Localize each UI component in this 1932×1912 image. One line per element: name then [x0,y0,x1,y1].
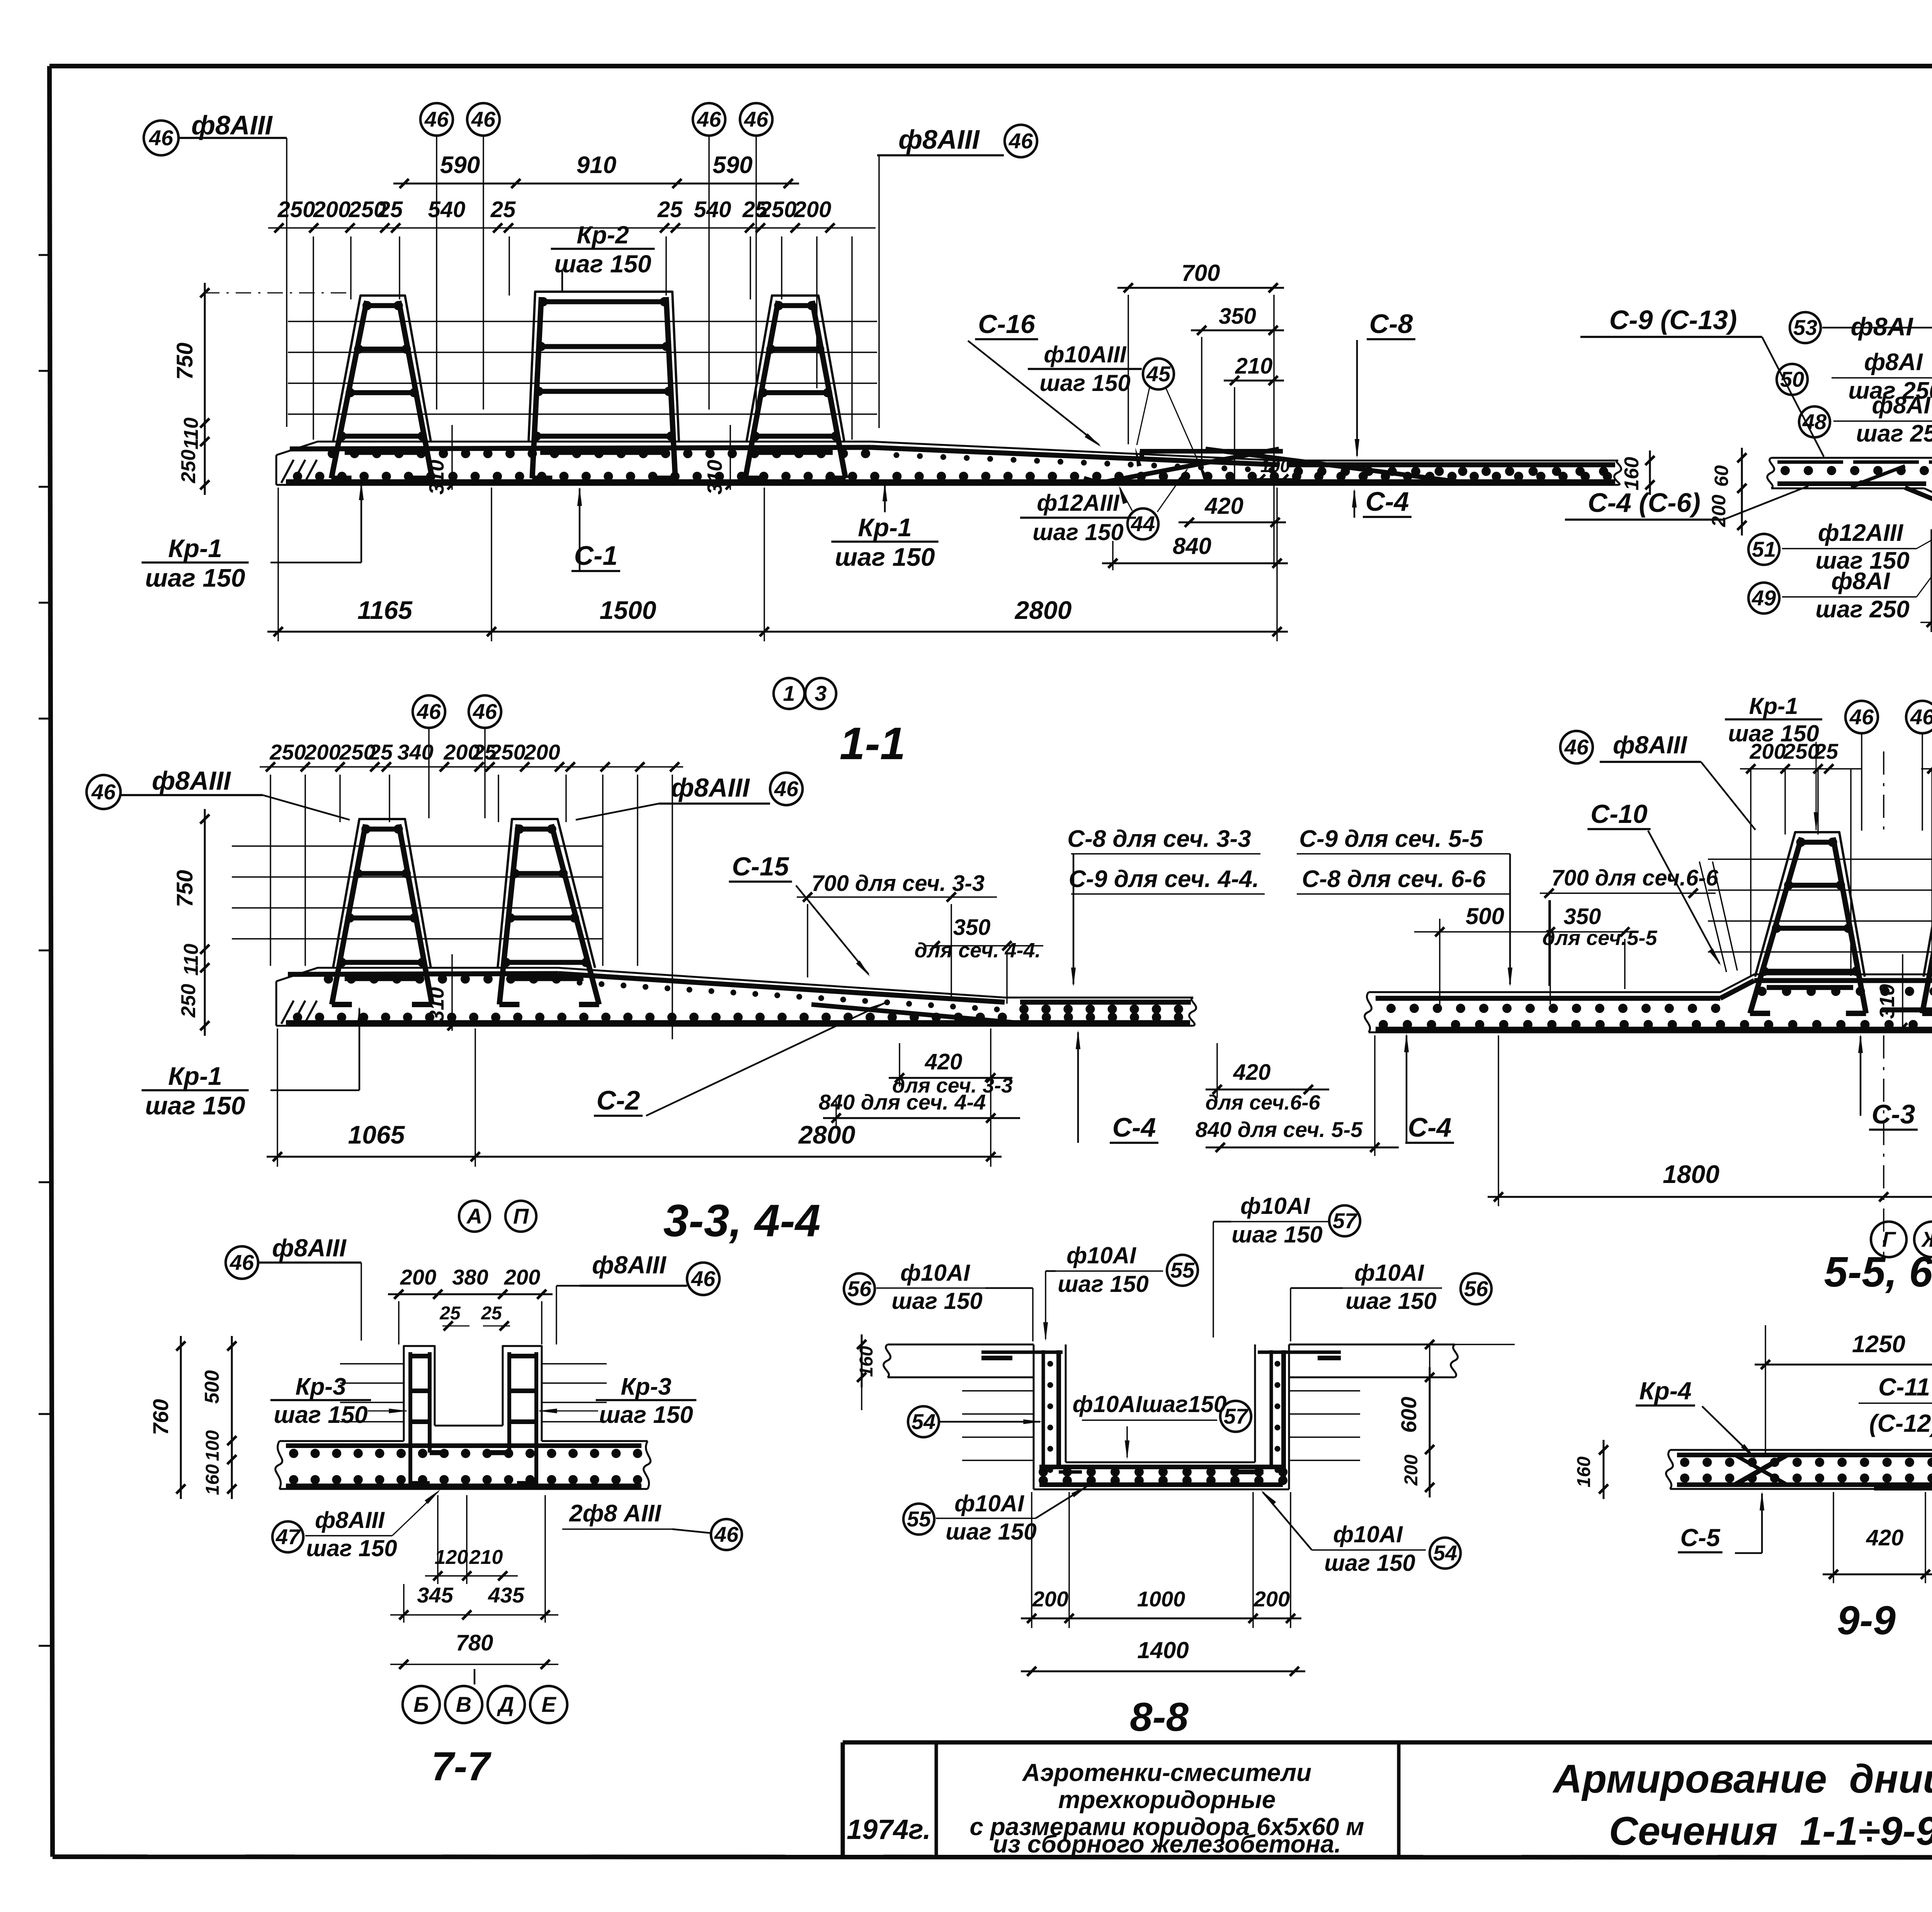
dimension 350 [1191,304,1284,461]
svg-text:250: 250 [489,740,525,764]
svg-text:2ф8 АIII: 2ф8 АIII [569,1500,662,1527]
dimension 700 для сеч 6-6 [1540,865,1719,986]
310 depth label 3-3 [425,954,457,1031]
labels Кр-1 шаг 150 top 5-5 [1725,693,1932,831]
svg-text:Кр-2: Кр-2 [577,221,629,249]
svg-text:2800: 2800 [1014,596,1072,624]
label Кр-2 шаг 150 [551,221,655,293]
label С-16 with leader [968,309,1101,447]
section 1-1 slab right rebar С-8 [1287,462,1615,467]
dimension 780 7-7 [390,1630,558,1684]
dimension 160 left 9-9 [1574,1440,1608,1499]
section 3-3 base slab outline [276,968,1196,1026]
svg-text:200: 200 [313,197,351,222]
svg-text:из сборного железобетона.: из сборного железобетона. [993,1830,1341,1858]
section 7-7 slab rebar [286,1446,642,1486]
section 3-3 slab bottom rebar С-2 [286,1020,1190,1025]
svg-text:200: 200 [524,740,560,764]
dimension 345 435 7-7 [390,1495,558,1623]
svg-text:ф10АIшаг150: ф10АIшаг150 [1073,1391,1227,1417]
label ф10АI шаг 150 55 top 8-8 [1043,1242,1198,1341]
bottom dimension row 1800 1800 [1488,751,1932,1259]
left vertical dims 160 200 [1708,448,1747,535]
section 9-9 slab outline [1666,1450,1932,1489]
label С-1 [571,487,620,571]
svg-text:С-8 для сеч. 6-6: С-8 для сеч. 6-6 [1302,866,1486,892]
section 1-1 slab top rebar С-16 [290,447,871,449]
svg-text:шаг 150: шаг 150 [1728,721,1819,746]
section 3-3 diagonal anchor bars [386,1004,1020,1023]
bottom dimension row 1165 1500 2800 [267,488,1288,641]
svg-text:1250: 1250 [1852,1331,1905,1358]
svg-text:Армирование днища.: Армирование днища. [1552,1757,1932,1802]
svg-text:ф8АIII: ф8АIII [152,766,231,795]
thin vertical extension lines [313,236,852,440]
svg-text:46: 46 [230,1250,254,1275]
dashed base level line [204,292,350,294]
svg-text:В: В [456,1692,471,1717]
svg-text:Сечения 1-1÷9-9: Сечения 1-1÷9-9 [1609,1809,1932,1854]
svg-text:ф8АI: ф8АI [1850,312,1913,341]
svg-text:ф8АI: ф8АI [1864,349,1923,376]
label С-4 with leader [1352,486,1412,518]
svg-text:С-4 (С-6): С-4 (С-6) [1588,488,1701,518]
section 8-8 wall rebar [981,1350,1341,1484]
svg-text:2800: 2800 [798,1120,855,1149]
dimension 160 right end [1621,450,1655,495]
svg-text:200: 200 [400,1265,436,1289]
labels Кр-3 шаг 150 [270,1373,696,1428]
svg-text:С-15: С-15 [732,852,789,881]
svg-text:57: 57 [1224,1404,1249,1428]
svg-text:С-3: С-3 [1872,1099,1915,1129]
svg-text:340: 340 [397,740,433,764]
svg-text:С-8 для сеч. 3-3: С-8 для сеч. 3-3 [1067,826,1251,852]
left vertical dims 750 110 250 3-3 [172,809,209,1036]
svg-text:250: 250 [277,197,315,222]
leader circles 46 top 3-3 [413,695,501,818]
svg-text:С-5: С-5 [1680,1524,1721,1552]
label С-3 [1858,1034,1918,1130]
leader circle 46 with ф8АIII top right [877,124,1037,428]
dimension 500 [1414,900,1638,1004]
svg-text:200: 200 [1401,1455,1422,1486]
svg-text:910: 910 [577,152,616,178]
svg-text:ф8АIII: ф8АIII [898,124,980,155]
label Кр-4 left 9-9 [1636,1377,1756,1459]
svg-text:55: 55 [1170,1258,1195,1282]
svg-text:ф8АI: ф8АI [1831,568,1890,595]
svg-text:7-7: 7-7 [431,1744,492,1789]
dimension 700 [1117,260,1284,567]
section 5-5 top rebar С-10 [1376,996,1720,1001]
svg-text:1: 1 [783,681,795,705]
svg-text:200: 200 [794,197,832,222]
title block project name [969,1759,1364,1858]
svg-text:250: 250 [759,197,797,222]
section 5-5 rebar dots [1379,987,1932,1029]
thin vertical extension lines 5-5 [1751,769,1932,976]
svg-text:250: 250 [269,740,306,764]
svg-text:Е: Е [541,1692,556,1717]
svg-text:ф10АI: ф10АI [1333,1521,1403,1547]
svg-text:250: 250 [177,450,200,484]
svg-text:160: 160 [1574,1457,1594,1487]
axis circles Г Ж Л [1871,1222,1932,1257]
svg-text:Ж: Ж [1921,1227,1932,1251]
dimension 700 для сеч 3-3 [797,871,997,999]
svg-text:шаг 150: шаг 150 [1231,1222,1323,1247]
svg-text:шаг 150: шаг 150 [946,1519,1037,1545]
axis circles А П [459,1201,536,1232]
dimension row 250 200 250 25 340 200 25 250 200 [260,740,683,772]
svg-text:160: 160 [1621,457,1643,491]
section 3-3 rebar dots [293,974,1183,1022]
label С-11 (С-12) 9-9 [1859,1373,1932,1447]
svg-text:46: 46 [471,107,496,131]
svg-text:160: 160 [202,1464,223,1495]
svg-text:200: 200 [1708,495,1730,527]
thin vertical extension lines 3-3 [270,775,672,1039]
svg-text:350: 350 [1219,304,1256,329]
svg-text:210: 210 [1235,354,1273,379]
svg-text:435: 435 [488,1583,524,1607]
svg-text:750: 750 [172,343,197,380]
dimension row 200 380 200 7-7 [388,1265,553,1344]
svg-text:5-5, 6-6: 5-5, 6-6 [1824,1248,1932,1296]
svg-text:ф8АIII: ф8АIII [1613,731,1687,759]
wall stub center Кр-2 with ladder cage [529,292,679,442]
svg-text:750: 750 [172,870,197,908]
section 1-1 slab rebar dots slope row [894,452,900,458]
dimension 350 для сеч 4-4 [914,915,1043,1004]
section 3-3 left end hatch [281,1001,294,1024]
svg-text:ф10АI: ф10АI [1354,1260,1424,1286]
svg-text:590: 590 [713,152,752,178]
svg-text:С-4: С-4 [1366,486,1409,517]
svg-text:350: 350 [1564,904,1601,929]
label 49 ф8АI шаг 250 left [1748,527,1932,623]
thin wall formwork horizontals 3-3 [232,846,603,939]
label ф10АI шаг 150 56 top-right 8-8 [1291,1260,1492,1341]
svg-text:46: 46 [149,126,173,150]
svg-text:48: 48 [1802,410,1827,434]
dimension 1250 9-9 [1755,1325,1932,1453]
label 50 ф8АI шаг 250 [1777,349,1932,459]
svg-text:600: 600 [1396,1397,1421,1433]
section 1-1 slab rebar dots bottom row [293,472,302,481]
label ф10АIII шаг 150 circle 45 [1028,342,1208,479]
svg-text:С-11: С-11 [1878,1373,1930,1401]
label 54 circle left 8-8 [908,1406,1043,1437]
svg-text:46: 46 [774,777,799,801]
label С-4 (С-6) left [1565,486,1808,520]
label ф10АI шаг 150 54 bottom-right 8-8 [1261,1490,1461,1576]
label 53 ф8АI top [1790,312,1932,460]
leader circle 46 with ф8АIII top left [144,110,287,427]
svg-text:Кр-1: Кр-1 [168,534,222,563]
svg-text:110: 110 [180,417,202,449]
svg-text:345: 345 [417,1583,453,1607]
section 7-7 thin formwork horizontals [340,1364,607,1422]
svg-text:Кр-4: Кр-4 [1639,1377,1691,1405]
svg-text:46: 46 [697,107,721,131]
svg-text:420: 420 [1866,1525,1904,1550]
leader circles 46 5-5 [1845,697,1932,831]
label Кр-1 шаг 150 3-3 [141,1006,362,1120]
svg-text:420: 420 [1204,493,1243,519]
svg-text:56: 56 [1464,1276,1488,1301]
svg-text:46: 46 [714,1522,739,1547]
svg-text:для сеч.6-6: для сеч.6-6 [1205,1091,1320,1114]
svg-text:3-3, 4-4: 3-3, 4-4 [663,1195,821,1246]
svg-text:380: 380 [452,1265,488,1289]
label С-2 with leader [594,1002,887,1116]
svg-text:шаг 250: шаг 250 [1815,596,1909,623]
svg-text:ф12АIII: ф12АIII [1037,490,1119,516]
svg-text:200: 200 [504,1265,540,1289]
svg-text:46: 46 [691,1266,716,1291]
svg-text:200: 200 [1253,1587,1290,1611]
wall stub trapezoid right Кр-1 3-3 [498,819,595,968]
svg-text:25: 25 [490,197,516,222]
section 7-7 base slab [276,1441,651,1489]
svg-text:Кр-1: Кр-1 [858,513,912,542]
svg-text:шаг 150: шаг 150 [306,1535,397,1561]
svg-text:С-16: С-16 [978,309,1036,339]
svg-text:500: 500 [1466,903,1504,929]
svg-text:420: 420 [1233,1060,1271,1085]
section 8-8 channel outline [884,1344,1458,1489]
label С-9 (С-13) left [1580,305,1824,457]
leader circle 46 ф8АIII left 7-7 [226,1234,361,1341]
svg-text:8-8: 8-8 [1130,1694,1189,1740]
svg-text:1-1: 1-1 [840,718,906,769]
label 2ф8 АIII 46 [562,1500,742,1550]
svg-text:шаг 150: шаг 150 [1039,370,1131,396]
svg-text:100: 100 [1260,456,1290,476]
section 8-8 slab rebar [1039,1467,1287,1485]
svg-text:1065: 1065 [348,1120,405,1149]
svg-text:760: 760 [148,1399,173,1435]
axis circles 1 3 [774,678,836,709]
section 9-9 bowtie cage marks Кр-4 [1735,1455,1932,1485]
svg-text:Д: Д [497,1692,514,1717]
fold marks on left edge [39,255,51,1646]
section 2а-2а rebar dots [1781,466,1932,522]
svg-text:54: 54 [912,1409,935,1434]
svg-text:Б: Б [413,1692,429,1717]
dimension 120 210 7-7 [425,1495,518,1584]
svg-text:Аэротенки-смесители: Аэротенки-смесители [1022,1759,1311,1786]
title block year cell 1974г. [847,1814,931,1845]
svg-text:3: 3 [815,681,827,705]
svg-text:П: П [513,1204,529,1228]
svg-text:шаг 150: шаг 150 [835,543,935,571]
label ф10АI шаг 150 57 top 8-8 [1213,1193,1360,1338]
svg-text:700: 700 [1181,260,1220,286]
label С-8 with leader [1355,309,1415,458]
dims 160 600 200 sides 8-8 [856,1334,1515,1497]
svg-text:шаг 150: шаг 150 [1345,1288,1437,1314]
svg-text:С-9 для сеч. 4-4.: С-9 для сеч. 4-4. [1069,866,1259,892]
wall stub trapezoid left Кр-1 3-3 [333,819,431,968]
bottom dimension 1400 8-8 [1021,1637,1305,1676]
svg-text:1000: 1000 [1137,1587,1185,1611]
svg-text:(С-12): (С-12) [1869,1409,1932,1437]
svg-text:310: 310 [425,460,448,495]
svg-text:310: 310 [425,987,448,1022]
svg-text:Кр-1: Кр-1 [1749,693,1798,719]
dimension 420 9-9 [1823,1492,1932,1583]
svg-text:ф8АIII: ф8АIII [315,1507,385,1533]
label Кр-1 шаг 150 right [831,482,938,571]
wall stub trapezoid left Кр-1 5-5 [1755,832,1865,977]
svg-text:25: 25 [481,1303,502,1324]
svg-text:Кр-3: Кр-3 [295,1373,346,1400]
svg-text:590: 590 [440,152,480,178]
svg-text:1974г.: 1974г. [847,1814,931,1845]
310 depth labels [425,425,735,495]
svg-text:шаг 150: шаг 150 [1032,519,1124,545]
left vertical dimension stack 750 110 250 [172,283,209,495]
dimension 100 small [1252,456,1294,484]
bottom dimension 200 1000 200 8-8 [1021,1492,1301,1628]
labels С-9 для сеч 5-5 and С-8 для сеч 6-6 [1297,826,1512,987]
svg-text:310: 310 [1876,984,1899,1019]
dimension row 590 910 590 [393,183,799,185]
svg-text:46: 46 [744,107,769,131]
label 47 ф8АIII шаг 150 [272,1489,440,1561]
section 1-1 diagonal anchor bars С-4 [1084,449,1459,483]
thin wall formwork horizontals 5-5 [1708,859,1932,952]
svg-text:1800: 1800 [1663,1160,1719,1188]
svg-text:700 для сеч.6-6: 700 для сеч.6-6 [1551,865,1719,891]
svg-text:840 для сеч. 5-5: 840 для сеч. 5-5 [1196,1117,1363,1142]
svg-text:шаг 150: шаг 150 [145,1091,245,1120]
svg-text:210: 210 [469,1546,503,1569]
svg-text:ф10АI: ф10АI [1066,1242,1136,1268]
label Кр-1 шаг 150 left [141,481,364,592]
section 8-8 thin formwork horizontals [962,1391,1360,1460]
svg-text:46: 46 [1849,705,1874,729]
section 2а-2а top rebar with dashes [1777,461,1932,464]
svg-text:46: 46 [1009,129,1033,153]
svg-text:25: 25 [368,740,393,764]
dimension 420 для сеч 3-3 [889,1043,1013,1097]
section 5-5 right rebar С-11/С-12 [1882,1008,1932,1013]
section 1-1 slab bottom rebar С-1 [286,479,1615,484]
svg-text:для сеч. 4-4.: для сеч. 4-4. [914,939,1041,962]
dimension 840 для сеч 4-4 [819,1090,1020,1127]
svg-text:49: 49 [1752,586,1776,610]
svg-text:44: 44 [1131,512,1155,536]
label 51 ф12АIII шаг 150 left [1748,513,1932,574]
svg-text:А: А [466,1204,482,1228]
leader circles 46 above walls [420,103,772,410]
svg-text:ф8АIII: ф8АIII [671,773,750,802]
section 1-1 slab rebar dots top row [328,449,337,458]
leader circle 46 ф8АIII right 7-7 [556,1251,719,1344]
svg-text:С-4: С-4 [1112,1112,1156,1142]
svg-text:46: 46 [424,107,449,131]
svg-text:51: 51 [1752,537,1776,561]
dimension 210 [1224,354,1284,484]
svg-text:100: 100 [202,1430,223,1461]
svg-text:46: 46 [473,699,497,724]
svg-text:840 для сеч. 4-4: 840 для сеч. 4-4 [819,1090,986,1114]
section 2а-2а bottom rebar С-4 [1777,481,1932,486]
svg-text:С-9 для сеч. 5-5: С-9 для сеч. 5-5 [1299,826,1483,852]
bottom dimension row 400 400 20 20 400 400 [1920,527,1932,634]
section 3-3 right rebar С-8/С-9 [1020,1000,1191,1005]
svg-text:50: 50 [1780,367,1804,391]
svg-text:160: 160 [856,1346,877,1377]
dimension rows 200 250 25 and 25 250 200 5-5 [1740,739,1932,773]
svg-text:25: 25 [439,1303,461,1324]
label С-10 with leader [1587,799,1737,972]
svg-text:60: 60 [1711,465,1732,487]
section 9-9 slab rebar [1677,1455,1932,1488]
label 48 ф8АI шаг 250 left [1799,392,1932,459]
svg-text:46: 46 [1910,705,1932,729]
svg-text:57: 57 [1333,1208,1358,1233]
svg-text:350: 350 [953,915,991,940]
section 1-1 base slab outline [276,442,1621,485]
section 1-1 left end hatch [281,460,294,483]
svg-text:420: 420 [925,1049,963,1074]
svg-text:540: 540 [428,197,466,222]
labels С-8 для сеч 3-3 and С-9 для сеч 4-4 [1067,826,1265,987]
svg-text:54: 54 [1433,1541,1457,1565]
section 2а-2а slab outline [1767,458,1932,525]
section 3-3 slab top rebar С-15 [288,974,558,974]
svg-text:ф8АI: ф8АI [1872,392,1931,419]
svg-text:ф8АIII: ф8АIII [592,1251,667,1279]
title block sheet title [1552,1757,1932,1854]
label С-15 with leader [729,852,870,977]
svg-text:ф10АI: ф10АI [900,1260,970,1286]
label ф12АIII шаг 150 circle 44 [1020,467,1189,545]
section 7-7 channel walls outline [404,1346,542,1441]
svg-text:для сеч.5-5: для сеч.5-5 [1542,926,1657,950]
svg-text:ф8АIII: ф8АIII [272,1234,347,1262]
axis circles Б В Д Е [403,1686,567,1723]
svg-text:С-2: С-2 [597,1085,640,1115]
svg-text:250: 250 [177,984,200,1018]
svg-text:540: 540 [694,197,731,222]
svg-text:трехкоридорные: трехкоридорные [1058,1786,1276,1813]
svg-text:С-10: С-10 [1590,799,1648,829]
svg-text:56: 56 [847,1276,872,1301]
svg-text:шаг 150: шаг 150 [1058,1271,1149,1297]
svg-text:9-9: 9-9 [1837,1598,1896,1643]
svg-text:500: 500 [201,1370,223,1404]
wall stub trapezoid right Кр-1 5-5 [1923,832,1932,977]
svg-text:200: 200 [304,740,340,764]
svg-text:С-8: С-8 [1369,309,1413,339]
svg-text:120: 120 [435,1546,468,1569]
label С-4 3-3 [1076,1030,1158,1143]
section 5-5 bottom rebar С-3 [1376,1027,1932,1032]
svg-text:25: 25 [657,197,683,222]
label С-5 9-9 [1678,1491,1764,1553]
leader circle 46 ф8АIII right 3-3 [576,773,803,820]
svg-text:1165: 1165 [357,596,413,624]
label С-4 5-5 [1404,1033,1454,1143]
svg-text:Кр-1: Кр-1 [168,1062,222,1090]
left circle 46 ф8АIII 5-5 [1560,731,1755,830]
